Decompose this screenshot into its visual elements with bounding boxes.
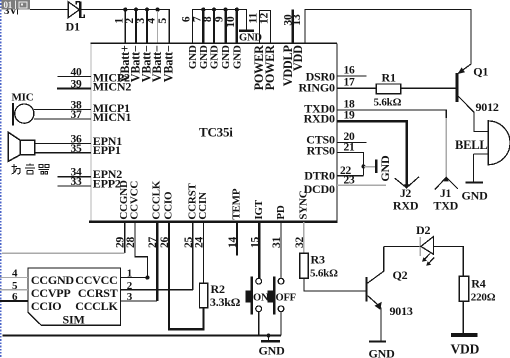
bottom pin 26 CCIO wire [169,222,204,329]
resistor R3 5.6k [300,253,338,280]
power symbol VDD [451,333,480,357]
svg-text:01: 01 [4,0,13,10]
svg-text:SIM: SIM [63,312,85,326]
svg-text:TC35i: TC35i [199,125,233,140]
wire pins 30/13 VDDLP VDD [292,10,294,44]
svg-text:R4: R4 [471,277,485,291]
ground symbol Q2 GND [369,342,396,358]
svg-text:14: 14 [227,236,239,248]
wire 3V rail to D1 [30,9,68,11]
bottom pin 29 CCGND wire [124,222,126,253]
svg-text:BELL: BELL [455,138,488,152]
svg-text:SYNC: SYNC [297,190,309,219]
wire bottom ground bus to left edge [3,334,282,336]
svg-text:MICN1: MICN1 [93,110,132,124]
svg-text:RTS0: RTS0 [307,144,335,158]
svg-text:PD: PD [275,205,287,220]
svg-text:16: 16 [344,65,356,77]
pin numbers 30,13 [283,14,304,26]
blue dashed page border [0,0,2,358]
svg-text:TXD: TXD [433,199,458,213]
left pin 35 EPP1 [35,152,92,154]
node junction dots pins 7-10 [201,8,205,12]
svg-text:15: 15 [249,236,261,248]
svg-text:VDD: VDD [451,342,480,357]
svg-text:9013: 9013 [390,304,413,318]
svg-text:CCCLK: CCCLK [151,180,163,219]
wire pin3 VBatt- [146,10,148,44]
svg-text:26: 26 [159,236,171,248]
wire SIM pin1 CCVCC [121,277,148,279]
left pin 33 EPP2 [57,185,91,187]
bell speaker BELL [455,120,510,166]
left pin 39 MICN2 [57,87,91,89]
pushbutton OFF [268,276,296,314]
wire SIM pin4 to edge (grey) [0,277,28,279]
connector J1 TXD [433,177,458,213]
svg-text:Q1: Q1 [473,65,488,79]
node junction dot CCVCC/SIM1 [145,276,149,280]
svg-text:CCRST: CCRST [78,286,118,300]
wire POWER pins 11-12 [260,11,271,44]
svg-text:POWER: POWER [263,45,277,90]
svg-text:28: 28 [125,236,137,248]
wire SIM pin2 CCRST [121,289,193,291]
LED D2 [416,223,434,266]
SIM pin numbers [12,267,133,303]
svg-text:RXD0: RXD0 [304,111,335,125]
svg-text:CCCLK: CCCLK [75,299,118,313]
svg-text:Q2: Q2 [393,268,408,282]
pushbutton ON [245,276,269,314]
diode D1 [66,1,85,33]
speaker 扬声器 [8,132,34,161]
svg-text:27: 27 [147,236,159,248]
svg-text:4: 4 [146,18,158,24]
svg-text:OFF: OFF [276,293,296,304]
svg-text:RXD: RXD [393,199,419,213]
svg-text:35: 35 [70,143,82,155]
svg-text:RING0: RING0 [298,81,335,95]
left pin labels [93,70,132,190]
svg-text:5.6kΩ: 5.6kΩ [374,97,402,109]
ground symbol BELL GND [462,182,489,202]
svg-text:CCGND: CCGND [31,273,75,287]
svg-text:GND: GND [378,155,392,182]
wire ON bottom to ground bus [258,312,260,336]
svg-text:13: 13 [291,14,303,26]
bottom pin labels inside IC [118,180,309,220]
svg-text:GND: GND [462,189,489,203]
wire Q2 collector to LED [384,245,421,247]
svg-text:MICN2: MICN2 [93,80,132,94]
pin numbers 6-10 [181,16,237,28]
resistor R4 220 [459,276,495,303]
svg-text:GND: GND [209,45,221,69]
wire CCGND to left edge (grey) [2,252,125,254]
IC U1 TC35i body [89,43,338,222]
svg-text:21: 21 [344,141,356,153]
bottom pin 25 CCRST wire [192,222,194,290]
wire pin4 VBatt- (grey) [157,11,159,43]
svg-text:24: 24 [194,236,206,248]
ground symbol switches GND [259,336,286,358]
wire pin2 VBatt- [135,10,137,44]
wire TXD grey segment to J1 [445,118,447,177]
wire SIM pin3 CCCLK [121,300,158,302]
svg-text:GND: GND [369,347,396,358]
right pin 19 RXD0 wire to J2 [337,121,407,187]
svg-text:9012: 9012 [476,100,499,114]
left pin 40 MICP2 [57,76,91,78]
node junction dots pins 1-4 [123,8,127,12]
resistor R2 3.3k [200,282,241,309]
svg-text:37: 37 [70,109,82,121]
svg-text:10: 10 [225,16,237,28]
svg-text:8: 8 [202,16,214,22]
bottom pin 28 CCVCC wire [135,222,148,278]
svg-text:CCVCC: CCVCC [75,273,117,287]
svg-text:VDD: VDD [291,45,305,71]
bottom pin 24 CCIN wire [203,222,205,283]
resistor R1 5.6k [374,71,402,109]
pin numbers 11-12 [248,13,271,25]
svg-text:R3: R3 [311,253,325,267]
node junction dot ground bus [266,333,270,337]
right pin 22 DTR0 wire [337,175,364,177]
wire GND bus pins 6-10 [193,10,247,44]
bottom pin 32 SYNC wire to R3 (grey) [303,222,305,254]
svg-text:220Ω: 220Ω [471,292,496,304]
speaker chinese label [12,164,50,175]
wire LED to R4 [433,246,463,276]
wire OFF bottom to ground bus [280,312,282,336]
right pin 16 DSR0 stub [337,75,366,77]
svg-text:CCIO: CCIO [31,299,62,313]
svg-text:3.3kΩ: 3.3kΩ [210,295,241,309]
svg-text:IGT: IGT [253,199,265,219]
transistor Q2 9013 [367,246,413,318]
wire VDD rail to Q1 emitter [305,10,471,74]
svg-text:19: 19 [344,110,356,122]
right pin 23 DCD0 stub (grey) [337,184,386,186]
svg-text:D2: D2 [416,223,430,237]
svg-text:VBatt−: VBatt− [162,45,176,82]
bottom pin 14 TEMP stub [236,222,238,256]
right pin labels [298,70,335,197]
svg-text:EPP2: EPP2 [93,176,121,190]
microphone MIC [12,92,34,126]
svg-text:EPP1: EPP1 [93,143,121,157]
svg-text:9: 9 [214,16,226,22]
right pin 20 CTS0 stub [337,142,366,144]
pin labels VDDLP VDD [281,45,305,87]
wire R1 to Q1 base [401,87,456,89]
pin numbers 1-5 [113,18,169,24]
wire BELL to ground [473,154,475,182]
svg-text:D1: D1 [66,20,80,34]
svg-text:GND: GND [259,344,286,358]
left pin 34 EPN2 [57,176,91,178]
right pin 21 RTS0 wire [337,153,364,176]
svg-text:33: 33 [70,176,82,188]
node junction dot pin21/22 tie [361,164,365,168]
wire R4 to VDD [462,301,464,333]
svg-text:MIC: MIC [12,92,34,104]
svg-text:CCIN: CCIN [197,192,209,220]
right pin numbers 16-23 [340,65,355,187]
transistor Q1 9012 [457,65,499,132]
svg-text:CCVCC: CCVCC [128,181,140,220]
ground symbol top GND [239,31,262,44]
bottom pin 31 PD wire to OFF switch [280,222,282,278]
svg-text:CCVPP: CCVPP [31,286,71,300]
pin labels GND x5 [187,45,243,69]
svg-text:GND: GND [231,45,243,69]
left pin 36 EPN1 [35,143,92,145]
ground symbol at pin22 (rotated) [364,155,392,182]
left pin numbers [70,67,82,188]
right pin 18 TXD0 wire [337,110,446,118]
svg-text:DTR0: DTR0 [304,169,335,183]
svg-text:GND: GND [220,45,232,69]
svg-text:12: 12 [258,13,270,25]
wire R3 to Q2 base [304,278,365,291]
bottom pin 27 CCCLK wire [156,222,158,301]
svg-text:23: 23 [344,175,356,187]
svg-text:32: 32 [294,236,306,248]
left pin 37 MICN1 [34,118,91,120]
bottom pin numbers [115,236,306,248]
bottom pin 15 IGT wire to ON switch [258,222,260,278]
left pin 38 MICP1 [34,109,91,111]
svg-text:5.6kΩ: 5.6kΩ [310,268,338,280]
connector J2 RXD [393,177,419,213]
wire SIM pin5 to edge (grey) [0,289,28,291]
svg-text:40: 40 [70,67,82,79]
svg-text:39: 39 [70,79,82,91]
svg-text:TEMP: TEMP [231,188,243,219]
svg-text:R1: R1 [382,71,396,85]
svg-text:31: 31 [271,236,283,248]
page number badge [2,0,31,10]
wire Q2 emitter to ground [380,307,382,341]
svg-text:17: 17 [344,77,356,89]
svg-text:5: 5 [157,18,169,24]
svg-text:GND: GND [239,33,262,44]
pin labels VBatt [118,45,176,82]
wire pin1 VBatt+ [124,10,126,44]
wire VBatt rail D1 to pin5 [81,10,169,44]
right pin 17 RING0 wire to R1 [337,87,376,89]
pin labels POWER x2 [252,45,277,90]
svg-text:CCIO: CCIO [163,191,175,220]
wire SIM pin6 to edge [0,300,28,302]
svg-text:ON: ON [253,293,269,304]
SIM card holder [28,268,121,327]
